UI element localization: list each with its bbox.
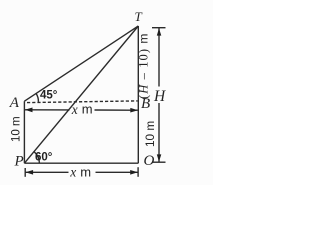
svg-text:(H – 10) m: (H – 10) m — [136, 32, 150, 99]
svg-text:x: x — [71, 102, 78, 117]
svg-text:A: A — [9, 95, 20, 111]
svg-text:H: H — [153, 88, 166, 105]
svg-text:O: O — [144, 153, 155, 169]
svg-text:60°: 60° — [35, 152, 53, 164]
svg-text:m: m — [80, 164, 91, 179]
svg-text:T: T — [135, 9, 143, 24]
svg-text:45°: 45° — [40, 90, 58, 102]
svg-text:x: x — [69, 165, 76, 180]
svg-text:10 m: 10 m — [143, 121, 157, 147]
svg-text:10 m: 10 m — [10, 116, 22, 142]
svg-text:m: m — [82, 102, 93, 117]
svg-text:P: P — [14, 154, 24, 170]
